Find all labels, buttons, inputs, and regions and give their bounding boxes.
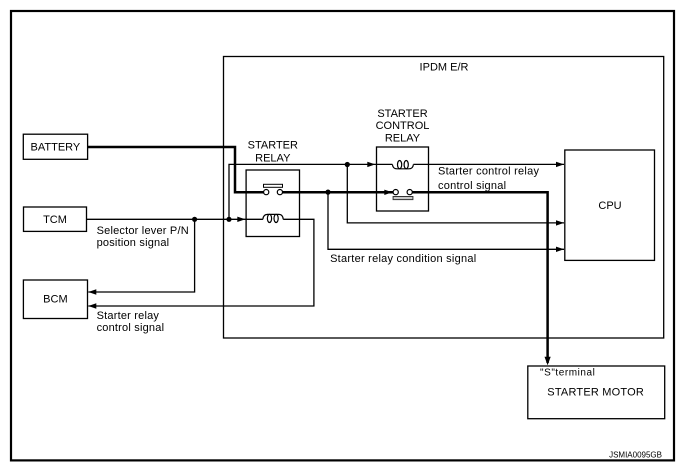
wire TCM selector lever signal [87,218,263,220]
svg-text:STARTER: STARTER [248,139,298,151]
svg-text:STARTER MOTOR: STARTER MOTOR [547,386,644,398]
relay K2 contact bar [393,197,413,200]
svg-text:CONTROL: CONTROL [376,120,430,132]
relay K1 switch contact circles [264,190,269,195]
svg-text:position signal: position signal [97,237,170,249]
starter motor box [528,366,665,419]
wire relay K2 switch output to starter motor (thick) [412,192,547,363]
battery box B1 [23,134,87,159]
BCM box [23,280,87,319]
wire TCM branch up to relay K2 coil [229,164,392,219]
svg-text:RELAY: RELAY [385,133,421,145]
wire relay K2 coil output to CPU [413,163,564,165]
CPU box [565,150,655,260]
arrow into CPU middle [556,220,564,225]
svg-text:BCM: BCM [43,294,67,306]
svg-text:STARTER: STARTER [377,108,427,120]
arrow into BCM lower [88,303,96,308]
svg-text:Selector lever P/N: Selector lever P/N [97,225,189,237]
wire branch down then right to CPU (control signal sense) [347,165,564,223]
svg-text:RELAY: RELAY [255,153,291,165]
svg-text:control signal: control signal [97,322,165,334]
relay K2 box (starter control relay) [377,147,429,211]
relay K2 switch contact circles [393,190,398,195]
arrow into relay K2 switch [384,190,392,195]
relay K1 contact bar [264,184,283,187]
wire TCM branch down to BCM [88,219,194,292]
arrow into relay K1 coil [237,217,245,222]
node branch to CPU (starter control relay control signal) [345,162,350,167]
node TCM branch to relay K2 coil [226,217,231,222]
wire relay K1 switch output to relay K2 switch (thick) [283,191,394,194]
svg-text:IPDM E/R: IPDM E/R [420,62,469,74]
wire battery feed (thick) [88,147,264,192]
svg-text:control signal: control signal [438,180,506,192]
svg-text:CPU: CPU [598,200,621,212]
IPDM E/R enclosure box [224,57,664,339]
svg-text:Starter relay: Starter relay [97,310,160,322]
svg-text:Starter control relay: Starter control relay [438,166,539,178]
TCM box [24,207,87,231]
node TCM branch to BCM [192,217,197,222]
svg-text:"S"terminal: "S"terminal [540,367,595,378]
arrow into CPU bottom [556,247,564,252]
wire starter relay condition signal to CPU [328,192,564,249]
svg-text:JSMIA0095GB: JSMIA0095GB [609,451,662,460]
svg-text:Starter relay condition signal: Starter relay condition signal [330,253,476,265]
arrow down into starter motor [545,357,551,366]
svg-text:TCM: TCM [43,214,67,226]
wire relay K1 coil output to BCM [88,219,314,306]
relay K1 box (starter relay) [246,170,299,237]
arrow into relay K2 coil [367,162,375,167]
arrow into CPU top [556,162,564,167]
svg-text:BATTERY: BATTERY [31,142,81,154]
relay K1 coil [263,214,283,222]
arrow into BCM upper [88,289,96,294]
relay K2 coil [392,161,413,169]
node on thick wire branch to CPU (starter relay condition) [325,190,330,195]
